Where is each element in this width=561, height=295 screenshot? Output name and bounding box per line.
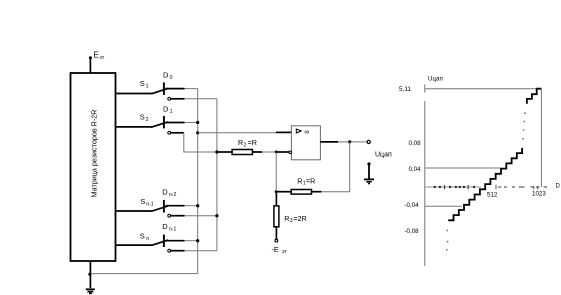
wire R3 to -Eэт terminal: [275, 227, 277, 239]
pin D1 contact bar: [163, 104, 173, 128]
svg-text:S: S: [140, 79, 145, 88]
svg-text:1: 1: [170, 109, 173, 115]
switch Sn-1: [116, 197, 169, 211]
node ground junction: [88, 273, 91, 276]
svg-text:n: n: [146, 236, 149, 242]
node bus2/Sn-1 lower: [215, 214, 218, 217]
wire S2 top contact: [166, 122, 185, 124]
svg-text:n-1: n-1: [169, 227, 177, 233]
resistor R3: [274, 206, 307, 227]
wire to output terminal: [351, 141, 367, 143]
wire Eэт to box top: [89, 59, 91, 74]
node bus1/Sn-1 top: [196, 204, 199, 207]
svg-text:∞: ∞: [304, 129, 309, 136]
svg-text:S: S: [140, 113, 145, 122]
svg-text:D: D: [163, 70, 169, 79]
wire op-amp output: [320, 141, 338, 143]
ground output reference: [364, 162, 374, 183]
wire box bottom to ground: [89, 261, 91, 288]
node bus2/R2 rail: [215, 150, 218, 153]
svg-text:Uцап: Uцап: [428, 76, 443, 83]
node Sn lower contact: [168, 249, 171, 252]
svg-text:=R: =R: [306, 176, 315, 185]
svg-text:D: D: [162, 222, 168, 231]
node bus1/plus-input rail: [196, 131, 199, 134]
svg-text:0: 0: [170, 75, 173, 81]
node R1/R3 junction: [275, 190, 278, 193]
wire bus 1 (ground bus): [197, 89, 199, 274]
wire R1 left lead: [278, 191, 292, 193]
svg-text:512: 512: [487, 191, 498, 198]
wire S1 lower contact: [171, 98, 185, 100]
svg-text:=R: =R: [248, 138, 257, 147]
op-amp U2: [289, 126, 320, 160]
resistor R2: [232, 138, 257, 155]
node bus1/Sn top: [196, 239, 199, 242]
staircase continuation dots upper: [522, 112, 526, 139]
svg-text:эт: эт: [100, 55, 105, 61]
wire bus 2 (summing bus): [216, 99, 218, 251]
node -Eэт terminal: [275, 239, 278, 242]
svg-text:R: R: [297, 176, 302, 185]
wire ground rail to bus 1: [91, 273, 198, 275]
svg-text:S: S: [140, 197, 145, 206]
wire y-axis: [424, 101, 426, 266]
svg-text:R: R: [238, 138, 243, 147]
switch S2: [116, 113, 169, 128]
svg-text:0,04: 0,04: [409, 166, 422, 173]
pin D0 contact bar: [163, 70, 173, 95]
svg-text:5,11: 5,11: [399, 86, 411, 93]
svg-text:S: S: [140, 232, 145, 241]
wire Sn top contact: [166, 240, 185, 242]
node Eэт terminal: [89, 51, 105, 62]
pin Dn-1 contact bar: [162, 222, 176, 247]
wire right boundary at 1023: [540, 89, 542, 187]
wire x-axis dash-dot: [425, 185, 547, 190]
wire R2 to summing node: [252, 151, 262, 153]
staircase continuation dots lower: [446, 230, 449, 251]
svg-text:D: D: [162, 188, 168, 197]
svg-text:-E: -E: [272, 245, 279, 254]
svg-text:1: 1: [146, 83, 149, 89]
node Uцап output terminal: [367, 140, 370, 143]
wire S1 top contact: [166, 88, 185, 90]
svg-text:0,08: 0,08: [409, 140, 422, 147]
wire 5,11 level tick: [424, 84, 426, 92]
svg-text:n-1: n-1: [146, 202, 154, 208]
wire junction to R3: [275, 193, 277, 206]
node Sn-1 lower contact: [168, 214, 171, 217]
svg-text:=2R: =2R: [293, 214, 306, 223]
wire op-amp non-inverting input rail: [198, 132, 276, 134]
ground: [86, 289, 95, 293]
svg-text:R: R: [284, 214, 289, 223]
svg-text:-0,08: -0,08: [405, 228, 420, 235]
switch Sn: [116, 232, 169, 246]
wire R2 rail left: [217, 151, 232, 153]
svg-text:эт: эт: [282, 249, 287, 255]
svg-text:Uцап: Uцап: [375, 152, 392, 159]
svg-text:D: D: [556, 183, 561, 189]
svg-text:Матрица резисторов R-2R: Матрица резисторов R-2R: [90, 110, 99, 198]
staircase upper section: [527, 89, 542, 104]
node S2 lower contact: [168, 131, 171, 134]
wire Sn lower contact: [171, 250, 185, 252]
staircase main: [448, 148, 522, 220]
wire S2 lower contact to R2 rail: [171, 132, 184, 134]
svg-text:2: 2: [244, 142, 247, 148]
wire Sn-1 top contact: [166, 205, 185, 207]
wire summing node to inverting input: [276, 151, 289, 153]
svg-text:-0,04: -0,04: [405, 202, 420, 209]
wire 5,11 level line: [425, 88, 542, 90]
wire R1 right lead: [312, 191, 322, 193]
wire summing node down: [275, 152, 277, 190]
pin Dn-2 contact bar: [162, 188, 176, 213]
node S1 lower contact: [168, 97, 171, 100]
svg-text:1023: 1023: [532, 191, 546, 198]
svg-text:2: 2: [146, 117, 149, 123]
wire feedback: output junction down to R1: [321, 142, 350, 192]
resistor R1: [291, 176, 315, 194]
node summing junction: [275, 151, 278, 154]
switch S1: [116, 79, 169, 94]
node bus1/S2 top: [196, 121, 199, 124]
svg-text:n-2: n-2: [169, 192, 177, 198]
resistor matrix box U1 (Матрица резисторов R-2R): [71, 73, 116, 261]
node output junction: [348, 140, 351, 143]
svg-text:D: D: [163, 104, 169, 113]
wire -0,04 gridline: [425, 205, 462, 207]
wire 0,04 gridline: [425, 167, 501, 169]
wire Sn-1 lower contact: [171, 215, 185, 217]
svg-text:E: E: [94, 51, 99, 60]
